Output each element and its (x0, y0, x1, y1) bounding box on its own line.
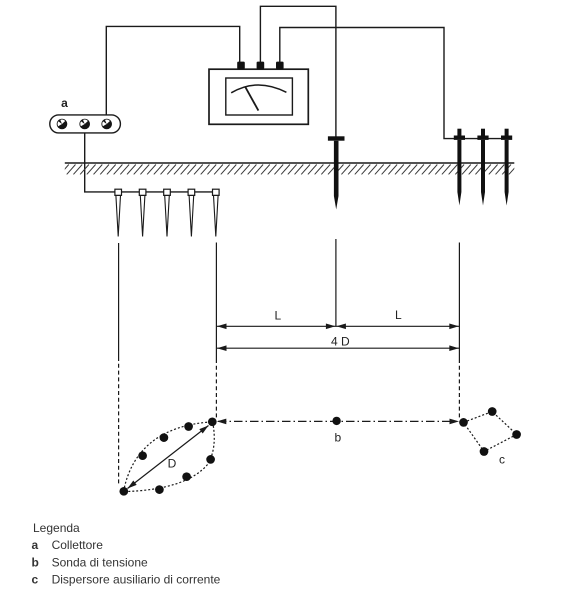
electrode dots on lens (119, 417, 216, 495)
meter instrument box (209, 69, 308, 124)
meter scale arc (231, 85, 286, 93)
svg-text:4 D: 4 D (331, 334, 350, 348)
electrode dots on polygon c (459, 407, 521, 456)
dimension line L-L (216, 325, 459, 327)
collector terminal block a (50, 115, 121, 133)
auxiliary current electrode rod 1 (454, 129, 465, 206)
svg-text:a: a (32, 538, 39, 552)
ground surface line (65, 162, 515, 164)
lens-shaped dotted outline of collector area (124, 422, 213, 492)
projection line below leftmost buried spike (118, 243, 120, 357)
wire from collector down to buried earth spikes (85, 128, 216, 192)
dimension arrow D across lens (128, 426, 209, 489)
auxiliary current electrode rod 3 (501, 129, 512, 206)
svg-text:Dispersore ausiliario di corre: Dispersore ausiliario di corrente (52, 572, 221, 586)
buried earth spike 1 (115, 189, 122, 236)
buried earth spike 4 (188, 189, 195, 236)
meter terminal 3 (276, 62, 284, 70)
svg-text:D: D (168, 457, 177, 471)
projection dashed line to lens lower vertex (118, 357, 120, 485)
wire from meter terminal 2 to voltage probe (260, 6, 336, 137)
buried earth spike 5 (213, 189, 220, 236)
svg-text:Collettore: Collettore (52, 538, 104, 552)
extension line below rightmost buried spike (215, 243, 217, 360)
projection dashed line to lens vertex (215, 359, 217, 418)
svg-text:c: c (499, 452, 505, 466)
projection dashed line to polygon c (458, 359, 460, 418)
buried earth spike 2 (139, 189, 146, 236)
svg-text:b: b (32, 555, 39, 569)
dotted polygon c (auxiliary electrode area) (464, 412, 517, 452)
collector screw terminal 2 (79, 119, 90, 130)
extension line below voltage probe (335, 239, 337, 327)
svg-text:a: a (61, 96, 68, 110)
svg-text:L: L (395, 308, 402, 322)
auxiliary current electrode rod 2 (477, 129, 488, 206)
wire from collector to meter terminal 1 (106, 26, 239, 120)
voltage probe b (driven rod) (328, 136, 345, 209)
collector screw terminal 1 (57, 119, 68, 130)
meter terminal 2 (257, 62, 265, 70)
dimension line 4D (216, 347, 459, 349)
wire from meter terminal 3 to auxiliary current electrodes (280, 28, 507, 139)
dash-dot line b between lens and polygon c (218, 420, 456, 422)
extension line below first auxiliary electrode (458, 243, 460, 360)
dot of probe b on line (332, 417, 340, 425)
buried earth spike 3 (164, 189, 171, 236)
svg-text:L: L (274, 309, 281, 323)
svg-text:b: b (334, 431, 341, 445)
collector screw terminal 3 (101, 119, 112, 130)
ground hatching (60, 165, 518, 175)
svg-text:c: c (32, 572, 39, 586)
meter needle (245, 86, 258, 110)
meter dial face (226, 78, 293, 115)
svg-text:Sonda di tensione: Sonda di tensione (52, 555, 148, 569)
svg-text:Legenda: Legenda (33, 521, 80, 535)
meter terminal 1 (237, 62, 245, 70)
